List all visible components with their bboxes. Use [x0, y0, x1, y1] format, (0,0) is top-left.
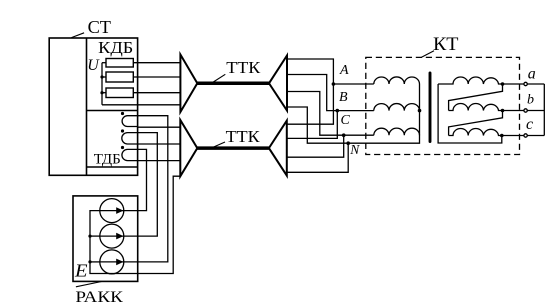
svg-text:A: A [339, 63, 349, 78]
wire lower amp out3 to node C [287, 135, 344, 157]
wire top amp out2 to node B [287, 75, 337, 111]
secondary s3 dot [500, 134, 504, 138]
primary winding phase C [374, 128, 420, 135]
svg-text:N: N [349, 142, 360, 157]
label TTK bottom tick [213, 142, 226, 148]
wire terminal c [502, 135, 524, 137]
node dot RAKK bracket source2 [88, 235, 91, 238]
label RAKK tick [76, 282, 102, 287]
TDB loop 2 polarity dot [121, 129, 124, 132]
svg-text:b: b [527, 92, 534, 107]
TDB cell bottom [87, 166, 138, 168]
node C dot [342, 133, 346, 137]
wire a to right bracket [527, 83, 544, 85]
node A dot [332, 82, 336, 86]
wire bus A to transformer [333, 83, 373, 85]
wire loop2 top lead to RAKK source 2 riser [124, 133, 158, 237]
resistor R1 [106, 59, 133, 68]
RAKK source 2 circle [100, 224, 124, 248]
wire b to right bracket [527, 110, 544, 112]
label TTK top tick [213, 74, 225, 82]
RAKK source 1 circle [100, 199, 124, 223]
amplifier left triangle bottom TTK [180, 120, 197, 176]
node dot R2 left [100, 75, 103, 78]
TDB loop 1 [122, 116, 138, 127]
zigzag link s2 to s3 [449, 111, 503, 136]
resistor R3 [106, 88, 133, 98]
wire R1 to amplifier [133, 62, 180, 64]
svg-text:C: C [341, 113, 351, 128]
svg-text:E: E [74, 261, 88, 281]
svg-text:B: B [339, 90, 348, 105]
wire bus B to transformer [337, 110, 374, 112]
wire top amp out3 to node C [287, 92, 344, 136]
svg-text:a: a [528, 66, 536, 83]
secondary winding s1 [438, 77, 502, 84]
wire loop3 top lead to RAKK source 1 riser [124, 149, 147, 210]
node B dot [336, 109, 340, 113]
node N dot [346, 141, 350, 145]
svg-text:ТТК: ТТК [226, 127, 261, 146]
svg-text:СТ: СТ [88, 17, 111, 37]
wire resistor left bracket [102, 62, 106, 64]
node dot RAKK bracket source3 [88, 260, 91, 263]
svg-text:ТДБ: ТДБ [94, 152, 121, 168]
wire top amp out1 to node A [287, 59, 333, 84]
label CT tick [71, 33, 84, 38]
wire loop1 top lead to RAKK source 3 riser [124, 116, 168, 262]
primary winding phase A [374, 77, 420, 84]
wire lower amp out4 to node N [287, 143, 348, 172]
wire R2 to amplifier [133, 76, 180, 78]
amplifier right triangle top TTK [269, 56, 287, 111]
terminal a circle [524, 82, 527, 85]
svg-text:РАКК: РАКК [75, 289, 123, 306]
secondary s1 dot [501, 82, 505, 86]
TDB loop 2 [122, 133, 138, 144]
wire lower amp out2 to node B [287, 111, 338, 139]
RAKK source 1 arrow [100, 210, 124, 212]
TTK top thick line [197, 82, 269, 86]
svg-text:c: c [526, 116, 533, 133]
svg-text:ТТК: ТТК [226, 58, 261, 77]
wire U line 4 to amplifier [102, 104, 180, 106]
block CT (sensor unit) outer box [49, 38, 137, 175]
primary star point dot [418, 109, 422, 113]
node dot R3 left [100, 91, 103, 94]
right bracket vertical [543, 84, 545, 136]
wire bus C to transformer [344, 134, 374, 136]
KDB/TDB divider [87, 110, 138, 112]
svg-text:КТ: КТ [433, 34, 459, 55]
resistor R2 [106, 72, 133, 82]
RAKK source 2 arrow [100, 235, 124, 237]
transformer core bar [429, 73, 432, 142]
TDB loop 1 polarity dot [121, 112, 124, 115]
TTK bottom thick line [197, 146, 269, 150]
transformer KT dashed box [366, 57, 520, 154]
secondary winding s3 [449, 129, 502, 136]
wire loop3 bottom lead to lower amp input 3 [138, 160, 181, 162]
amplifier left triangle top TTK [180, 55, 197, 113]
secondary winding s2 [449, 104, 503, 111]
zigzag link s1 to s2 [449, 84, 503, 111]
secondary left bus [438, 84, 502, 143]
CT inner divider [86, 38, 88, 175]
RAKK source 3 circle [100, 250, 124, 274]
terminal c circle [524, 134, 527, 137]
amplifier right triangle bottom TTK [269, 121, 287, 176]
wire loop1 bottom lead to lower amp input 1 [138, 126, 181, 128]
wire RAKK left bracket [90, 176, 180, 273]
wire terminal b [503, 110, 524, 112]
RAKK source 3 arrow [100, 261, 124, 263]
svg-text:КДБ: КДБ [98, 38, 133, 57]
block RAKK box [73, 196, 138, 282]
wire c to right bracket [527, 135, 544, 137]
TDB loop 3 [122, 149, 138, 160]
TDB loop 3 polarity dot [121, 146, 124, 149]
wire top amp out4 to node N [287, 107, 348, 143]
wire terminal a [503, 83, 524, 85]
wire lower amp out1 to node A [287, 84, 334, 124]
secondary s2 dot [501, 109, 505, 113]
wire R3 to amplifier [133, 92, 180, 94]
primary winding phase B [374, 104, 420, 111]
wire bus N to star point [348, 84, 419, 143]
svg-text:U: U [87, 57, 100, 74]
wire loop2 bottom lead to lower amp input 2 [138, 143, 181, 145]
label KT tick [422, 51, 435, 57]
terminal b circle [524, 109, 527, 112]
